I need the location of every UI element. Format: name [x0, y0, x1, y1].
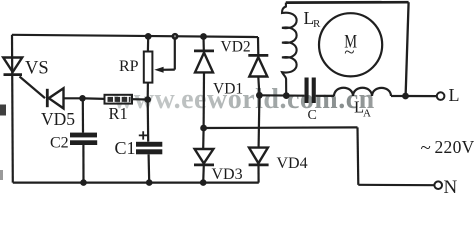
svg-text:C: C: [308, 108, 317, 123]
svg-text:R: R: [313, 18, 321, 30]
svg-text:VD1: VD1: [213, 81, 243, 98]
svg-text:www.eeworld.com.cn: www.eeworld.com.cn: [113, 84, 375, 115]
svg-text:R1: R1: [109, 104, 128, 123]
svg-text:VD5: VD5: [41, 109, 75, 129]
svg-text:A: A: [363, 108, 371, 120]
svg-text:220V: 220V: [435, 137, 474, 157]
svg-text:~: ~: [421, 138, 431, 159]
svg-text:C1: C1: [115, 138, 136, 158]
svg-text:~: ~: [344, 42, 354, 63]
svg-text:L: L: [449, 85, 460, 105]
svg-text:VS: VS: [25, 59, 49, 79]
svg-text:C2: C2: [50, 135, 69, 152]
svg-text:RP: RP: [119, 58, 139, 75]
svg-text:VD4: VD4: [277, 155, 308, 172]
svg-text:N: N: [444, 177, 458, 195]
svg-text:VD3: VD3: [212, 166, 243, 183]
svg-text:VD2: VD2: [221, 39, 251, 56]
